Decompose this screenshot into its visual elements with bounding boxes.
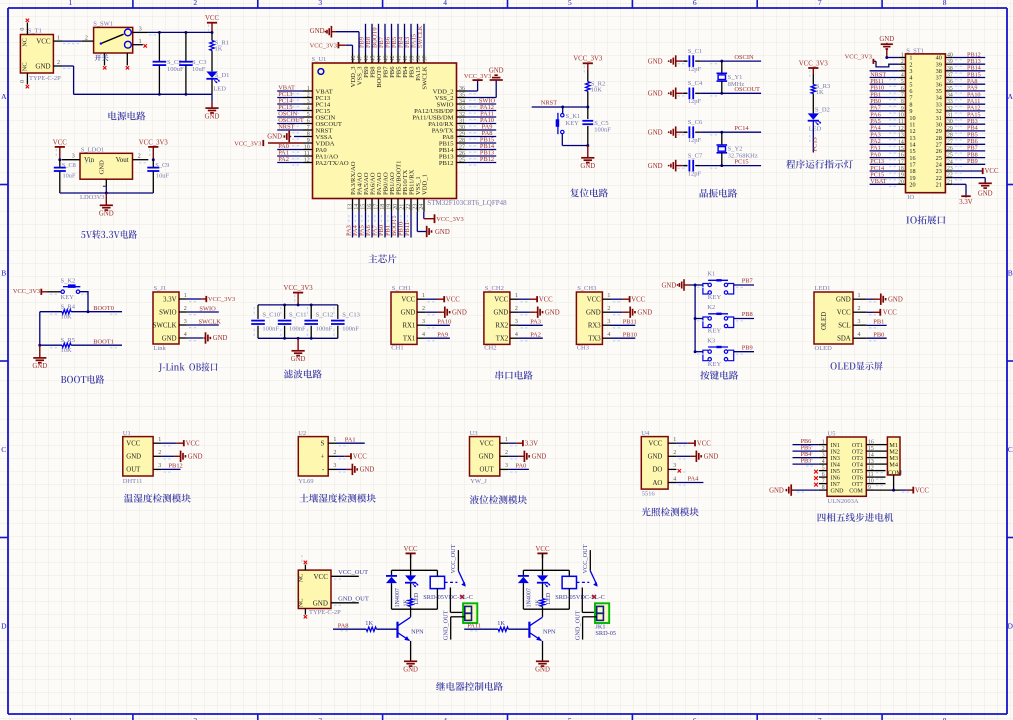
header S_ST1 left pin 15	[870, 145, 916, 155]
svg-text:TYPE-C-2P: TYPE-C-2P	[309, 609, 341, 616]
svg-text:SWCLK: SWCLK	[199, 318, 222, 325]
svg-text:27: 27	[459, 144, 465, 150]
svg-text:14: 14	[868, 452, 874, 458]
svg-text:12: 12	[868, 465, 874, 471]
svg-text:VCC: VCC	[353, 454, 367, 461]
svg-text:3: 3	[184, 319, 187, 325]
svg-text:32: 32	[947, 106, 953, 112]
svg-text:ULN2003A: ULN2003A	[828, 498, 859, 505]
svg-text:SDA: SDA	[837, 336, 851, 343]
svg-text:S_D2: S_D2	[815, 107, 830, 114]
svg-text:15: 15	[898, 146, 904, 152]
caption OLED显示屏	[831, 362, 883, 371]
svg-text:32: 32	[459, 112, 465, 118]
svg-text:21: 21	[936, 182, 942, 189]
svg-text:VCC: VCC	[36, 37, 51, 45]
svg-text:3: 3	[673, 463, 676, 469]
svg-text:S_U1: S_U1	[312, 56, 327, 63]
transistor NPN (relay 1)	[398, 609, 425, 661]
svg-text:YL69: YL69	[298, 478, 313, 485]
svg-text:SWIO: SWIO	[159, 309, 176, 316]
header S_ST1 right pin 23	[936, 166, 953, 175]
MCU U1 bottom pin 23 VSS_1	[412, 176, 421, 212]
caption J-Link OB接口	[159, 362, 218, 372]
header S_ST1 right pin 32	[936, 105, 986, 115]
svg-text:12pF: 12pF	[688, 171, 702, 178]
MCU U1 top pin 48 VDD_3	[350, 54, 357, 88]
svg-text:GND: GND	[580, 163, 595, 170]
svg-text:PB10: PB10	[623, 331, 637, 338]
svg-text:OUT: OUT	[126, 467, 141, 474]
svg-text:OT3: OT3	[852, 456, 863, 462]
svg-text:1K: 1K	[497, 620, 505, 627]
svg-text:19: 19	[898, 173, 904, 179]
svg-text:3: 3	[515, 319, 518, 325]
connector S_CH3 serial	[576, 285, 620, 352]
svg-text:16: 16	[367, 204, 373, 210]
svg-text:SRD-05: SRD-05	[595, 630, 616, 637]
header S_ST1 left pin 2	[899, 59, 913, 68]
wire U5 OT4 to motor M4	[874, 463, 887, 465]
svg-text:3: 3	[158, 463, 161, 469]
svg-text:26: 26	[459, 151, 465, 157]
svg-text:1K: 1K	[816, 89, 824, 96]
wire filter bottom bus	[258, 337, 338, 340]
svg-text:LED: LED	[213, 86, 226, 93]
resistor S_R2 10K	[586, 70, 606, 107]
connector JK (relay 2)	[595, 603, 609, 623]
svg-text:A: A	[1, 92, 7, 101]
svg-text:8: 8	[307, 131, 310, 137]
svg-text:7: 7	[818, 716, 822, 720]
svg-text:5: 5	[307, 112, 310, 118]
svg-text:GND: GND	[32, 363, 47, 370]
svg-text:6: 6	[822, 472, 825, 478]
svg-text:39: 39	[947, 59, 953, 65]
wire / net label PA2 (S_CH2 TX)	[518, 331, 543, 338]
svg-text:VCC: VCC	[401, 297, 415, 304]
MCU U1 right pin 35 VSS_2	[435, 92, 476, 102]
svg-text:COM: COM	[888, 470, 903, 477]
wire / net label PB6 (U5 IN1)	[793, 438, 819, 446]
svg-text:VCC: VCC	[915, 487, 929, 494]
caption 继电器控制电路	[436, 682, 503, 691]
LED relay 2	[537, 570, 552, 604]
svg-text:22: 22	[406, 204, 412, 210]
power flag VCC (LDO input)	[53, 139, 67, 161]
svg-text:12pF: 12pF	[688, 66, 702, 73]
wire / net label PB1 (OLED SCL)	[867, 318, 887, 325]
header S_ST1 left pin 6	[870, 85, 913, 95]
svg-text:D: D	[1007, 621, 1013, 630]
svg-text:4: 4	[822, 459, 825, 465]
svg-text:14: 14	[354, 204, 360, 210]
svg-text:GND: GND	[99, 160, 106, 175]
svg-text:KEY: KEY	[708, 361, 722, 368]
svg-text:47: 47	[357, 56, 363, 62]
svg-text:2: 2	[307, 92, 310, 98]
svg-text:OT1: OT1	[852, 443, 863, 449]
svg-text:VCC_3V3: VCC_3V3	[799, 60, 829, 67]
diode D2 1N4007	[518, 570, 533, 609]
svg-text:RX1: RX1	[402, 323, 415, 330]
svg-text:18: 18	[898, 166, 904, 172]
svg-text:S_C3: S_C3	[192, 59, 206, 66]
power flag VCC_3V3 (reset)	[573, 56, 603, 73]
power flag VCC (OLED pin2)	[867, 309, 898, 317]
svg-text:4: 4	[858, 332, 861, 338]
capacitor S_C10 100nF	[251, 305, 280, 338]
label SRD-05VDC-SL-C (relay 2)	[555, 594, 605, 601]
push button K3 KEY	[697, 337, 743, 368]
svg-text:S_ST1: S_ST1	[906, 47, 924, 54]
relay switch 1 (SPDT)	[445, 544, 466, 612]
svg-text:GND: GND	[978, 190, 993, 197]
svg-text:VCC_OUT: VCC_OUT	[338, 569, 368, 576]
power flag VCC_3V3 at MCU VDD_1	[424, 212, 464, 223]
svg-text:GND_OUT: GND_OUT	[574, 610, 581, 640]
MCU U1 right pin 36 VDD_2	[433, 86, 476, 96]
LED S_D2	[808, 107, 830, 133]
svg-text:15: 15	[360, 204, 366, 210]
svg-text:10K: 10K	[61, 347, 73, 354]
svg-text:3.3V: 3.3V	[525, 440, 538, 447]
svg-text:GND: GND	[532, 454, 547, 461]
svg-text:2: 2	[822, 446, 825, 452]
svg-text:GND: GND	[493, 310, 508, 317]
svg-text:VCC: VCC	[494, 297, 508, 304]
svg-text:48: 48	[351, 56, 357, 62]
svg-text:0: 0	[20, 80, 26, 83]
connector S_CH2 serial	[484, 285, 528, 352]
svg-text:PA10: PA10	[437, 318, 451, 325]
svg-text:PA4: PA4	[688, 476, 700, 483]
svg-text:23: 23	[412, 204, 418, 210]
caption BOOT电路	[61, 375, 104, 384]
svg-text:GND: GND	[648, 91, 663, 98]
wire / net label PB9 (K3)	[695, 344, 754, 351]
MCU U1 bottom pin 13 PA3/RX/AO	[346, 161, 357, 237]
svg-text:KEY: KEY	[708, 294, 722, 301]
capacitor S_C4 12pF	[678, 80, 704, 105]
svg-text:SRD-05VDC-SL-C: SRD-05VDC-SL-C	[555, 594, 605, 601]
MCU U1 right pin 32 PA11/USB/DM	[412, 111, 496, 122]
svg-text:S_SW1: S_SW1	[93, 20, 113, 27]
svg-text:U4: U4	[641, 430, 650, 437]
power flag VCC (S_CH3)	[611, 296, 646, 303]
svg-text:PC13: PC13	[811, 137, 818, 151]
relay switch 2 (SPDT)	[577, 544, 598, 612]
svg-text:S_C10: S_C10	[262, 312, 280, 319]
svg-text:3: 3	[505, 463, 508, 469]
connector motor M1-M4 body	[887, 437, 902, 477]
svg-text:GND_OUT: GND_OUT	[443, 610, 450, 640]
caption 按键电路	[700, 371, 738, 380]
svg-text:21: 21	[947, 179, 953, 185]
header S_ST1 right pin 38	[936, 65, 986, 75]
svg-text:OT5: OT5	[852, 469, 863, 475]
svg-text:VCC_3V3: VCC_3V3	[284, 285, 314, 292]
capacitor S_C2	[153, 32, 184, 94]
wire / net label PA0 (U3 OUT)	[508, 463, 529, 470]
wire keys rail	[694, 285, 697, 353]
svg-text:GND: GND	[452, 309, 467, 316]
svg-text:GND: GND	[648, 163, 663, 170]
resistor S_R3 1K	[811, 74, 830, 113]
svg-text:GND: GND	[836, 297, 851, 304]
svg-text:GND: GND	[313, 599, 328, 607]
svg-text:VCC: VCC	[697, 440, 711, 447]
pin header S_ST1 body	[906, 47, 946, 200]
header S_ST1 right pin 31	[936, 111, 986, 121]
svg-text:8MHz: 8MHz	[728, 81, 745, 88]
capacitor S_C1 12pF	[678, 48, 703, 73]
header S_ST1 left pin 14	[870, 138, 916, 148]
svg-text:1: 1	[515, 293, 518, 299]
svg-text:VCC: VCC	[539, 296, 553, 303]
wire relay 1 top rail	[392, 553, 438, 570]
svg-text:6: 6	[693, 716, 697, 720]
svg-text:K3: K3	[707, 337, 715, 344]
wire BOOT left rail	[38, 312, 41, 347]
svg-text:OT7: OT7	[852, 482, 863, 488]
svg-text:KEY: KEY	[61, 294, 75, 301]
svg-text:+: +	[320, 454, 324, 461]
svg-text:VCC: VCC	[883, 310, 897, 317]
svg-text:S_D1: S_D1	[215, 72, 230, 79]
header S_ST1 left pin 1	[899, 53, 913, 62]
display LED1 OLED body	[814, 285, 876, 352]
svg-text:2: 2	[673, 450, 676, 456]
svg-text:19: 19	[386, 204, 392, 210]
wire relay 1 bottom rail	[392, 608, 438, 610]
svg-text:9: 9	[307, 138, 310, 144]
svg-text:12pF: 12pF	[688, 98, 702, 105]
switch S_SW1	[82, 20, 156, 69]
svg-text:LED: LED	[809, 126, 822, 133]
header S_ST1 right pin 24	[936, 158, 986, 168]
ground GND LDO	[99, 193, 114, 218]
svg-text:26: 26	[947, 146, 953, 152]
svg-text:KEY: KEY	[708, 328, 722, 335]
header S_ST1 left pin 17	[870, 158, 916, 168]
svg-text:1N4007: 1N4007	[395, 588, 401, 607]
svg-text:PB1: PB1	[873, 318, 884, 325]
wire / net label PB0 (OLED SDA)	[867, 331, 887, 338]
power flag VCC	[205, 15, 219, 34]
header S_ST1 right pin 25	[936, 151, 986, 161]
ground GND (relay 2)	[535, 661, 550, 674]
svg-text:41: 41	[396, 56, 402, 62]
svg-text:PA2: PA2	[530, 331, 541, 338]
svg-text:IN1: IN1	[831, 443, 840, 449]
svg-text:GND: GND	[126, 454, 141, 461]
svg-text:K1: K1	[707, 271, 715, 278]
svg-text:GND: GND	[879, 36, 894, 43]
ground GND (J-Link pin4)	[187, 332, 228, 343]
wire / net label PB4 (U5 IN3)	[793, 451, 819, 459]
svg-text:1: 1	[822, 439, 825, 445]
svg-text:PA2: PA2	[278, 156, 289, 163]
svg-text:IO: IO	[907, 194, 914, 201]
sensor U1 DHT11 body	[123, 430, 171, 485]
svg-text:GND: GND	[479, 454, 494, 461]
svg-text:30: 30	[459, 125, 465, 131]
svg-text:1K: 1K	[403, 599, 409, 607]
svg-text:1N4007: 1N4007	[527, 588, 533, 607]
svg-text:2: 2	[901, 59, 904, 65]
MCU U1 top pin 46 PB9	[359, 24, 370, 78]
svg-text:1K: 1K	[215, 45, 223, 52]
wire / net label PC14	[700, 125, 761, 135]
svg-text:VCC_OUT: VCC_OUT	[450, 544, 457, 573]
MCU U1 bottom pin 19 PB1/AO	[385, 172, 396, 237]
svg-text:U5: U5	[828, 430, 836, 437]
svg-text:Vout: Vout	[116, 156, 129, 164]
push button S_K2 KEY	[48, 278, 89, 301]
power flag 3.3V (U3)	[508, 440, 538, 447]
svg-text:2: 2	[515, 306, 518, 312]
svg-text:8: 8	[943, 0, 947, 7]
svg-text:3: 3	[318, 716, 322, 720]
svg-text:OT6: OT6	[852, 475, 863, 481]
svg-text:AO: AO	[652, 480, 662, 487]
wire / net label PB5 (U5 IN2)	[793, 445, 819, 453]
power flag VCC_3V3 (J-Link pin1)	[187, 296, 235, 303]
header S_ST1 left pin 19	[870, 171, 916, 181]
svg-text:SWCLK: SWCLK	[417, 25, 424, 48]
caption 光照检测模块	[642, 507, 699, 516]
svg-text:4: 4	[901, 73, 904, 79]
svg-text:PA11: PA11	[467, 622, 481, 629]
svg-text:S_C4: S_C4	[688, 80, 703, 87]
ground GND at MCU VSS_1	[417, 212, 450, 237]
svg-text:1: 1	[858, 293, 861, 299]
svg-text:30: 30	[947, 119, 953, 125]
svg-text:1: 1	[158, 437, 161, 443]
capacitor S_C5 100nF	[582, 106, 611, 147]
svg-text:NRST: NRST	[278, 124, 294, 131]
svg-text:10: 10	[868, 478, 874, 484]
svg-text:GND: GND	[704, 454, 719, 461]
ground GND at header pin 22	[952, 178, 992, 198]
svg-text:GND: GND	[648, 58, 663, 65]
svg-text:OSCIN: OSCIN	[734, 54, 754, 61]
svg-text:IN7: IN7	[831, 482, 840, 488]
svg-text:13: 13	[868, 459, 874, 465]
svg-text:17: 17	[373, 204, 379, 210]
ground GND (S_CH2)	[518, 307, 560, 318]
svg-text:GND: GND	[310, 28, 325, 35]
svg-text:15: 15	[868, 446, 874, 452]
svg-text:VCC_3V3: VCC_3V3	[234, 140, 261, 147]
svg-text:10: 10	[898, 113, 904, 119]
svg-text:2: 2	[422, 306, 425, 312]
connector JK (relay 1)	[463, 603, 477, 623]
resistor 1K (relay 2 base)	[464, 620, 528, 632]
ground GND (crystal row S_C4)	[648, 88, 683, 100]
wire / net label SWCLK	[187, 318, 221, 325]
MCU U1 top pin 41 PB5	[391, 24, 402, 78]
MCU U1 top pin 39 PB3	[404, 24, 415, 78]
svg-text:22: 22	[947, 173, 953, 179]
svg-text:VCC_3V3: VCC_3V3	[13, 288, 40, 295]
MCU U1 bottom pin 17 PA7/AO	[372, 172, 383, 237]
svg-text:34: 34	[459, 99, 465, 105]
svg-text:35: 35	[459, 92, 465, 98]
wire U5 OT7 open	[874, 484, 885, 486]
svg-text:GND: GND	[545, 309, 560, 316]
wire U5 OT3 to motor M3	[874, 457, 887, 459]
sensor U3 YW_J body	[470, 430, 518, 485]
svg-text:C: C	[1008, 445, 1013, 454]
svg-text:100uF: 100uF	[167, 66, 184, 73]
svg-text:S_R4: S_R4	[61, 304, 76, 311]
svg-text:16: 16	[898, 153, 904, 159]
no-connect U5 IN6	[814, 476, 818, 480]
svg-text:A: A	[1007, 92, 1013, 101]
svg-text:S_J1: S_J1	[154, 285, 167, 292]
svg-text:VCC: VCC	[587, 297, 601, 304]
MCU U1 right pin 27 PB14	[439, 143, 496, 154]
caption 四相五线步进电机	[818, 513, 894, 522]
connector S_CH1 serial	[391, 285, 435, 352]
ground GND (crystal row S_C1)	[648, 55, 683, 67]
MCU U1 right pin 34 SWIO	[437, 98, 497, 109]
svg-text:VCC_3V3: VCC_3V3	[845, 54, 872, 61]
header S_ST1 right pin 40	[936, 51, 986, 61]
caption 电源电路	[108, 111, 145, 120]
svg-text:SWIO: SWIO	[199, 305, 216, 312]
wire / net label SWIO	[187, 305, 219, 312]
relay coil 2	[562, 570, 576, 609]
svg-text:35: 35	[947, 86, 953, 92]
svg-text:2: 2	[158, 450, 161, 456]
svg-text:SWCLK: SWCLK	[153, 322, 177, 329]
wire / net label OSCOUT	[700, 86, 761, 96]
push button K2 KEY	[697, 304, 743, 335]
header S_ST1 left pin 5	[870, 78, 913, 88]
MCU U1 left pin 4 PC15	[277, 104, 331, 115]
svg-text:1: 1	[69, 716, 73, 720]
svg-text:5516: 5516	[642, 490, 656, 497]
svg-text:GND: GND	[648, 129, 663, 136]
header S_ST1 right pin 37	[936, 71, 986, 81]
svg-text:100nF: 100nF	[342, 326, 359, 333]
header S_ST1 right pin 22	[936, 173, 953, 182]
svg-text:OT4: OT4	[852, 462, 863, 468]
svg-text:M4: M4	[889, 461, 899, 468]
header S_ST1 right pin 33	[936, 98, 986, 108]
svg-text:PB12: PB12	[439, 160, 454, 167]
caption 主芯片	[368, 254, 396, 263]
svg-text:PB7: PB7	[742, 278, 754, 285]
svg-text:U1: U1	[123, 430, 131, 437]
svg-text:3: 3	[822, 452, 825, 458]
ground GND (OLED pin1)	[867, 294, 903, 305]
resistor S_R1 1K	[210, 32, 229, 71]
svg-text:VCC_3V3: VCC_3V3	[139, 139, 169, 146]
svg-text:3: 3	[139, 27, 142, 33]
caption 土壤湿度检测模块	[300, 494, 376, 503]
ground GND (crystal row S_C7)	[648, 160, 683, 172]
svg-text:10uF: 10uF	[156, 172, 169, 179]
svg-text:2: 2	[193, 716, 197, 720]
svg-text:2: 2	[85, 35, 88, 41]
svg-text:VCC_3V3: VCC_3V3	[208, 296, 235, 303]
svg-text:GND: GND	[831, 488, 845, 494]
diode D1 1N4007	[386, 570, 401, 609]
